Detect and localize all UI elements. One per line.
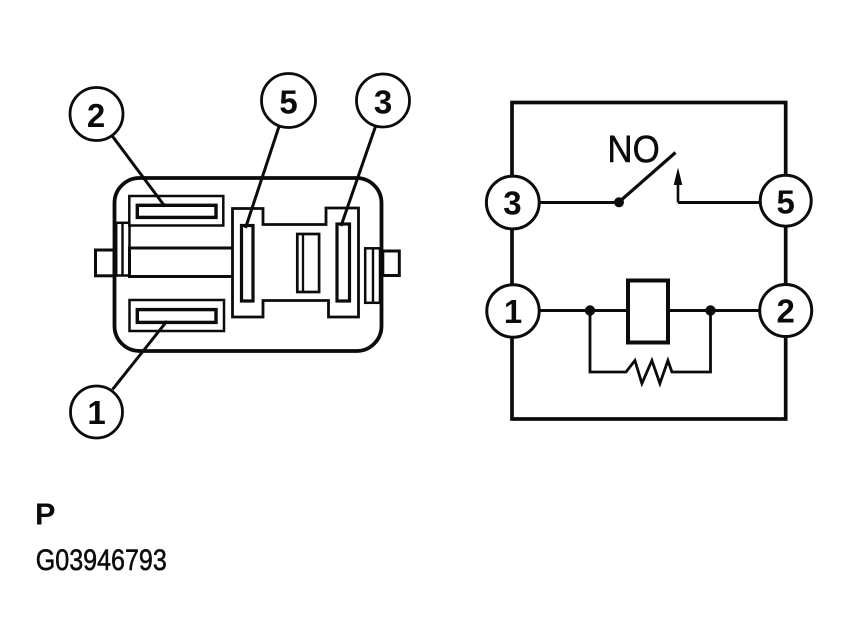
svg-text:1: 1 <box>504 293 522 330</box>
svg-text:NO: NO <box>607 128 659 171</box>
svg-text:3: 3 <box>503 185 521 222</box>
svg-text:2: 2 <box>777 293 795 330</box>
svg-text:G03946793: G03946793 <box>36 543 167 576</box>
svg-text:1: 1 <box>87 394 105 431</box>
svg-text:3: 3 <box>374 84 392 121</box>
svg-text:5: 5 <box>777 184 795 221</box>
svg-text:5: 5 <box>279 84 297 121</box>
svg-text:P: P <box>35 497 55 532</box>
svg-text:2: 2 <box>87 97 105 134</box>
